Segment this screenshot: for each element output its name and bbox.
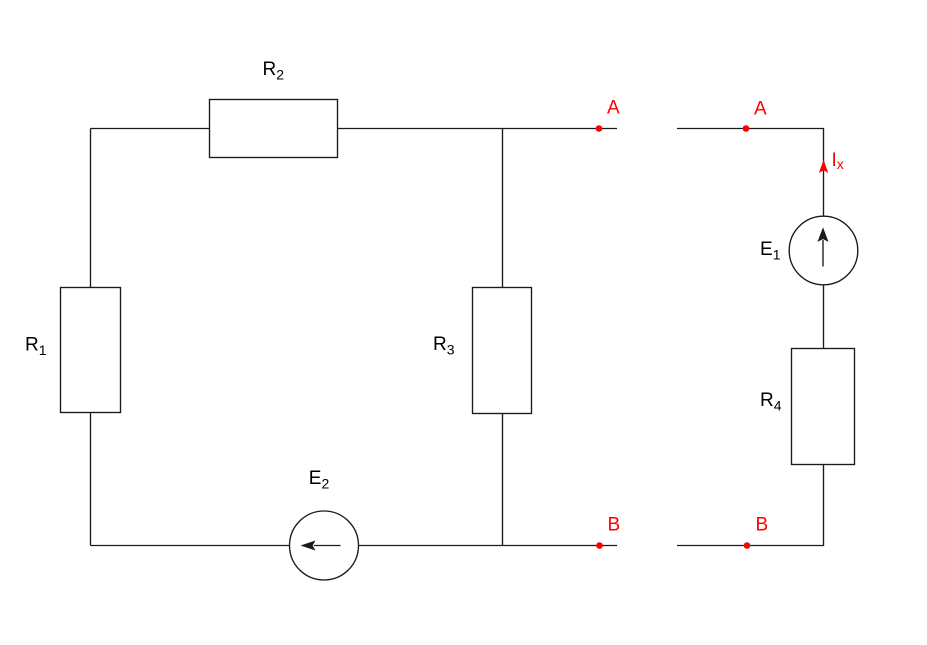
current arrow Ix: [819, 160, 828, 173]
wire bottom-right horizontal to terminal B: [359, 545, 618, 547]
svg-text:R3: R3: [433, 334, 455, 358]
svg-text:Ix: Ix: [832, 150, 844, 172]
svg-text:B: B: [608, 515, 621, 536]
svg-text:R1: R1: [25, 335, 47, 359]
svg-text:R2: R2: [263, 59, 285, 83]
node B right terminal dot: [744, 542, 751, 549]
wire bottom-left horizontal: [91, 545, 290, 547]
node A left terminal dot: [596, 125, 603, 132]
svg-text:A: A: [754, 99, 767, 120]
resistor R3: [473, 288, 532, 414]
source E2: [290, 511, 359, 580]
source E1 arrow: [818, 229, 827, 267]
node B left terminal dot: [596, 542, 603, 549]
node A right terminal dot: [743, 125, 750, 132]
resistor R4: [792, 349, 855, 465]
svg-text:A: A: [607, 98, 620, 119]
source E1: [789, 216, 858, 285]
resistor R2: [210, 100, 338, 158]
wire right-circuit top horizontal: [677, 129, 824, 217]
wire E1 to R4: [823, 285, 825, 349]
wire top-right horizontal to terminal A: [338, 128, 618, 130]
wire R3 stem lower: [502, 414, 504, 546]
wire top-left horizontal: [91, 128, 210, 130]
svg-text:E1: E1: [760, 239, 781, 263]
svg-text:R4: R4: [760, 390, 782, 414]
svg-text:E2: E2: [309, 468, 330, 492]
svg-text:B: B: [756, 515, 769, 536]
wire R4 to bottom corner and bottom horizontal: [677, 465, 824, 546]
wire left vertical lower: [90, 413, 92, 546]
source E2 arrow: [302, 541, 340, 549]
wire R3 stem upper: [502, 129, 504, 288]
wire left vertical upper: [90, 129, 92, 288]
resistor R1: [61, 288, 121, 413]
